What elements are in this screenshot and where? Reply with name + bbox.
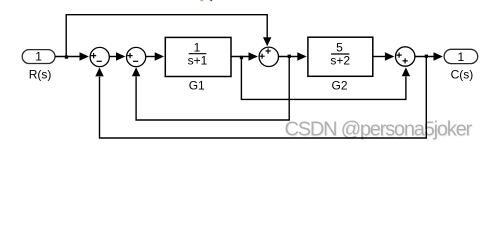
arrowhead into sum S2 bottom bbox=[132, 67, 140, 76]
node junction at output bbox=[425, 55, 428, 58]
output block C(s) bbox=[444, 49, 478, 64]
sum S1 bbox=[90, 47, 109, 66]
arrowhead into G2 bbox=[297, 52, 306, 60]
arrowhead into sum S4 left bbox=[385, 52, 394, 60]
svg-text:R(s): R(s) bbox=[29, 68, 52, 82]
svg-text:s+1: s+1 bbox=[188, 53, 208, 67]
wire sum S1 to sum S2 bbox=[109, 56, 117, 58]
svg-text:s+2: s+2 bbox=[330, 53, 350, 67]
svg-text:C(s): C(s) bbox=[451, 68, 474, 82]
svg-text:1: 1 bbox=[458, 50, 465, 64]
wire sum S3 to block G2 bbox=[279, 56, 299, 58]
arrowhead into sum S3 top bbox=[263, 37, 271, 46]
wire feedback node to sum S2 bottom bbox=[136, 57, 289, 121]
sum S2 bbox=[127, 47, 146, 66]
wire top feedforward from input node to sum S3 bbox=[66, 15, 267, 57]
wire sum S2 to block G1 bbox=[146, 56, 156, 58]
node junction on input line bbox=[65, 55, 68, 58]
svg-text:G1: G1 bbox=[189, 79, 205, 93]
arrowhead into C(s) bbox=[434, 52, 443, 60]
wire sum S4 to C(s) bbox=[415, 56, 434, 58]
block G2 transfer function 5/(s+2) bbox=[308, 37, 373, 76]
arrowhead into sum S2 left bbox=[116, 52, 125, 60]
input block R(s) bbox=[22, 50, 55, 64]
wire feedforward G1 output to sum S4 bottom bbox=[241, 57, 406, 100]
clipped text remnant specks at top edge bbox=[201, 0, 213, 1]
svg-text:1: 1 bbox=[35, 50, 42, 64]
wire R(s) to sum S1 bbox=[55, 56, 81, 58]
arrowhead into sum S4 bottom bbox=[402, 67, 410, 76]
watermark CSDN bbox=[285, 119, 474, 142]
block G1 transfer function 1/(s+1) bbox=[165, 37, 231, 76]
node junction at G1 output bbox=[240, 56, 243, 59]
arrowhead into G1 bbox=[155, 52, 164, 60]
sum S3 bbox=[259, 47, 278, 66]
svg-text:G2: G2 bbox=[331, 79, 347, 93]
wire G2 to sum S4 bbox=[373, 56, 386, 58]
arrowhead into sum S1 bottom bbox=[95, 68, 103, 77]
node junction before G2 bbox=[288, 55, 291, 58]
wire feedback output node to sum S1 bottom bbox=[100, 57, 427, 139]
wire G1 to sum S3 bbox=[231, 56, 250, 58]
arrowhead into sum S1 left bbox=[80, 52, 89, 60]
arrowhead into sum S3 left bbox=[249, 52, 258, 60]
sum S4 bbox=[396, 47, 415, 66]
